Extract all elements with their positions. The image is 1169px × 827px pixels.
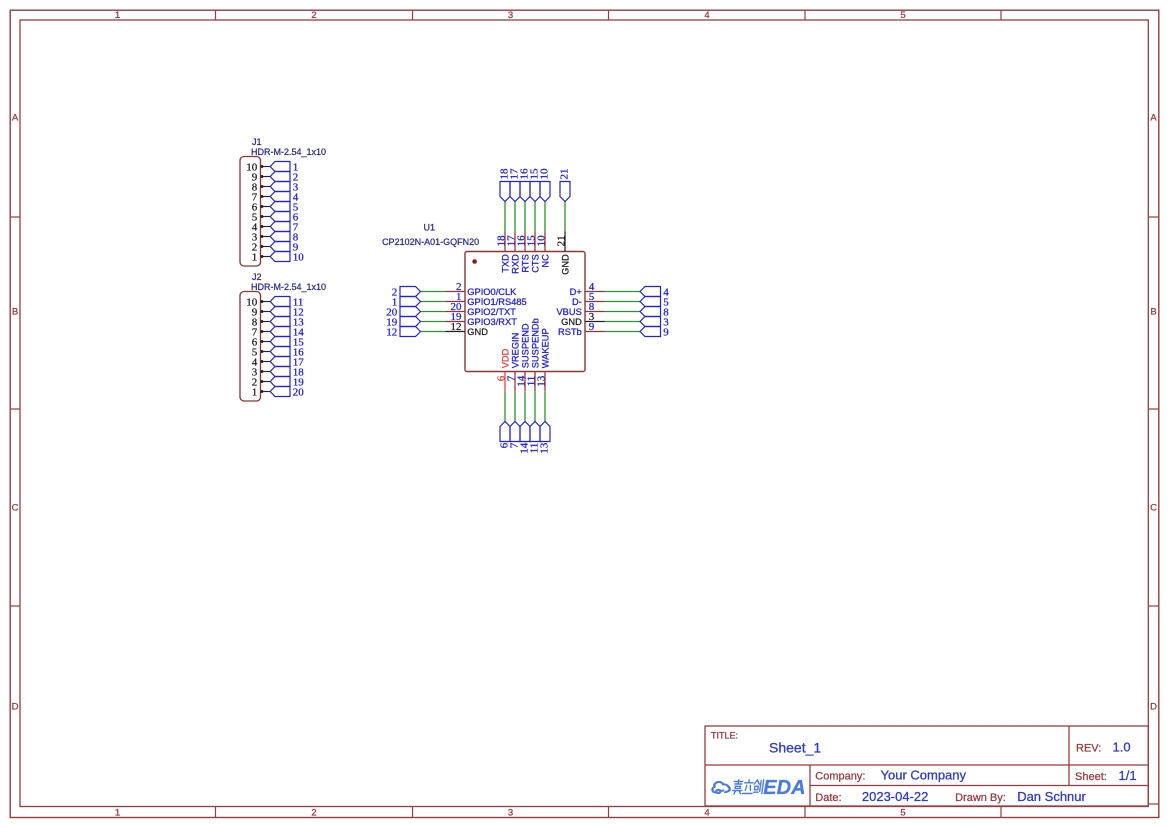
svg-text:Date:: Date: <box>815 792 841 804</box>
svg-text:GPIO3/RXT: GPIO3/RXT <box>467 317 517 327</box>
svg-text:4: 4 <box>704 807 709 818</box>
svg-text:GND: GND <box>467 327 488 337</box>
svg-text:CP2102N-A01-GQFN20: CP2102N-A01-GQFN20 <box>382 237 479 247</box>
svg-text:Sheet_1: Sheet_1 <box>769 740 821 756</box>
svg-text:20: 20 <box>293 387 305 399</box>
svg-text:4: 4 <box>704 10 709 21</box>
svg-text:1: 1 <box>252 387 258 399</box>
svg-text:Drawn By:: Drawn By: <box>955 792 1006 804</box>
svg-text:REV:: REV: <box>1076 743 1101 755</box>
svg-text:GPIO1/RS485: GPIO1/RS485 <box>467 297 526 307</box>
svg-text:TXD: TXD <box>500 254 510 273</box>
svg-text:J1: J1 <box>252 137 262 147</box>
svg-text:Your Company: Your Company <box>881 767 967 782</box>
svg-text:A: A <box>12 112 19 123</box>
svg-text:B: B <box>12 306 18 317</box>
svg-text:EDA: EDA <box>763 777 805 799</box>
svg-text:1: 1 <box>252 252 258 264</box>
svg-text:13: 13 <box>539 442 551 454</box>
svg-text:GND: GND <box>561 317 582 327</box>
svg-text:RSTb: RSTb <box>558 327 582 337</box>
svg-text:RTS: RTS <box>520 254 530 272</box>
svg-text:21: 21 <box>556 235 568 246</box>
svg-text:1: 1 <box>115 807 120 818</box>
svg-text:13: 13 <box>536 375 548 387</box>
svg-text:Company:: Company: <box>815 770 865 782</box>
svg-text:2: 2 <box>311 807 316 818</box>
svg-text:GPIO2/TXT: GPIO2/TXT <box>467 307 516 317</box>
svg-text:9: 9 <box>663 327 669 339</box>
svg-text:Dan Schnur: Dan Schnur <box>1017 789 1086 804</box>
svg-text:5: 5 <box>900 10 905 21</box>
svg-text:Sheet:: Sheet: <box>1075 771 1107 783</box>
svg-text:C: C <box>12 502 19 513</box>
svg-text:D+: D+ <box>570 287 582 297</box>
svg-text:RXD: RXD <box>510 254 520 274</box>
svg-text:1: 1 <box>115 10 120 21</box>
svg-text:HDR-M-2.54_1x10: HDR-M-2.54_1x10 <box>251 282 326 292</box>
svg-text:D-: D- <box>572 297 582 307</box>
svg-text:1.0: 1.0 <box>1113 740 1131 755</box>
svg-text:B: B <box>1150 306 1156 317</box>
svg-text:A: A <box>1150 112 1157 123</box>
svg-text:3: 3 <box>508 807 513 818</box>
svg-text:10: 10 <box>293 252 305 264</box>
svg-text:VDD: VDD <box>500 348 510 368</box>
svg-text:5: 5 <box>900 807 905 818</box>
svg-text:1/1: 1/1 <box>1119 768 1137 783</box>
svg-text:WAKEUP: WAKEUP <box>540 328 550 368</box>
svg-text:GPIO0/CLK: GPIO0/CLK <box>467 287 517 297</box>
svg-text:12: 12 <box>386 327 397 339</box>
svg-text:U1: U1 <box>424 223 436 233</box>
svg-text:TITLE:: TITLE: <box>711 730 738 740</box>
svg-text:VREGIN: VREGIN <box>510 333 520 369</box>
svg-text:10: 10 <box>539 168 551 180</box>
svg-text:VBUS: VBUS <box>556 307 581 317</box>
svg-text:10: 10 <box>536 235 548 247</box>
svg-text:2: 2 <box>311 10 316 21</box>
svg-text:D: D <box>1150 701 1157 712</box>
svg-text:2023-04-22: 2023-04-22 <box>862 789 929 804</box>
svg-text:HDR-M-2.54_1x10: HDR-M-2.54_1x10 <box>251 147 326 157</box>
svg-text:CTS: CTS <box>530 254 540 273</box>
svg-text:D: D <box>12 701 19 712</box>
svg-text:SUSPENDb: SUSPENDb <box>530 318 540 368</box>
svg-text:NC: NC <box>540 254 550 268</box>
svg-text:GND: GND <box>560 254 570 275</box>
svg-text:21: 21 <box>559 169 571 180</box>
svg-text:3: 3 <box>508 10 513 21</box>
svg-text:J2: J2 <box>252 272 262 282</box>
svg-text:SUSPEND: SUSPEND <box>520 323 530 368</box>
svg-text:C: C <box>1150 502 1157 513</box>
